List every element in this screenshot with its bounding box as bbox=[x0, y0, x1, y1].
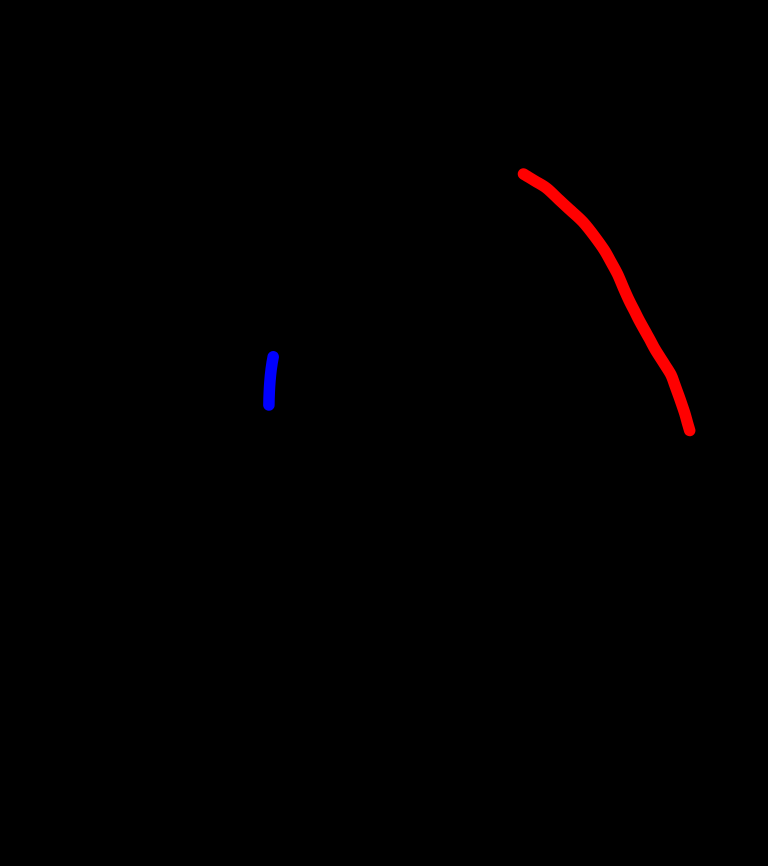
blue stroke bbox=[269, 357, 273, 405]
red stroke bbox=[524, 174, 690, 431]
